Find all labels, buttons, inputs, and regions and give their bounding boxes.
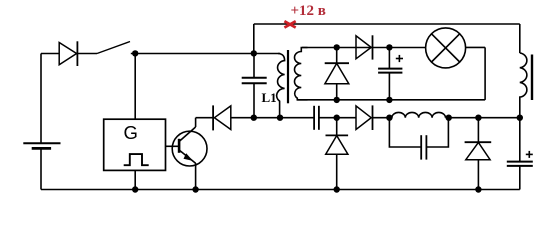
diode VD7 zener branch (465, 118, 492, 190)
node C dot (334, 44, 340, 50)
node J dot (517, 115, 523, 121)
transformer T2 winding (520, 53, 527, 118)
node dot VD7 ground (475, 186, 481, 192)
capacitor C5 polarized output (507, 118, 533, 190)
wire node A down to generator (134, 54, 136, 120)
node dot emitter ground (192, 186, 198, 192)
X mark test point (284, 21, 295, 27)
diode VD6 to ground (326, 118, 349, 190)
node B2 dot (251, 115, 257, 121)
node E dot (386, 44, 392, 50)
wire tank left side (389, 118, 421, 147)
node I dot (475, 115, 481, 121)
capacitor C2 polarized (378, 47, 402, 100)
transformer L1 secondary winding (294, 48, 307, 100)
wire rectifier bottom rail (297, 99, 485, 101)
inductor L2 (392, 112, 446, 117)
node dot bottom rail right (386, 97, 392, 103)
wire node H to node I (449, 117, 479, 119)
wire generator output to base (166, 145, 180, 147)
wire L1 bottom to C3 (280, 117, 314, 119)
wire +12V top rail (254, 23, 520, 25)
diode VD1 (59, 41, 97, 66)
wire C3 to node F (319, 117, 337, 119)
wire node B2 to L1 bottom (254, 117, 280, 119)
node dot L1 primary bottom (277, 115, 283, 121)
node dot generator ground (132, 186, 138, 192)
node G dot (386, 115, 392, 121)
wire +12V riser (253, 24, 255, 54)
wire node F to VD5 (337, 117, 356, 119)
node dot bottom rail left (334, 97, 340, 103)
svg-text:+12 в: +12 в (291, 3, 326, 19)
diode VD3 series (356, 35, 373, 59)
transformer L1 core (287, 50, 289, 103)
wire top rail down to T2 (519, 24, 521, 53)
wire rectifier top rail (302, 47, 426, 49)
wire collector riser (195, 118, 197, 127)
battery GB1 (23, 54, 60, 190)
pulse symbol (124, 154, 149, 165)
wire node B to L1 primary (254, 53, 280, 55)
transformer T2 core (531, 55, 533, 101)
node F dot (334, 115, 340, 121)
lamp HL1 (426, 28, 466, 68)
transistor VT1 (172, 127, 207, 190)
plus sign C2 (396, 55, 403, 62)
diode VD2 shunt (325, 47, 349, 100)
wire lamp right lead (466, 46, 486, 48)
wire battery plus to diode (41, 53, 59, 55)
wire ground rail (41, 189, 520, 191)
node dot VD6 ground (334, 186, 340, 192)
capacitor C1 (242, 54, 267, 118)
svg-text:L1: L1 (262, 90, 277, 105)
wire node A to node B (131, 53, 254, 55)
diode VD5 series (356, 105, 389, 130)
node A dot (132, 50, 138, 56)
node B dot (251, 50, 257, 56)
transformer L1 primary winding (277, 54, 285, 118)
switch SA1 (97, 42, 130, 54)
capacitor C3 series (314, 106, 319, 130)
node H dot (446, 115, 452, 121)
wire node I to node J (478, 117, 519, 119)
wire collector to diode (196, 117, 214, 119)
diode VD4 (213, 105, 254, 130)
generator G1 box (104, 119, 166, 170)
capacitor C4 tank (421, 135, 426, 159)
plus sign C5 (526, 151, 533, 158)
wire generator to ground (134, 170, 136, 189)
svg-text:G: G (124, 122, 138, 143)
wire lamp return riser (484, 47, 486, 100)
wire tank right side (426, 118, 448, 147)
